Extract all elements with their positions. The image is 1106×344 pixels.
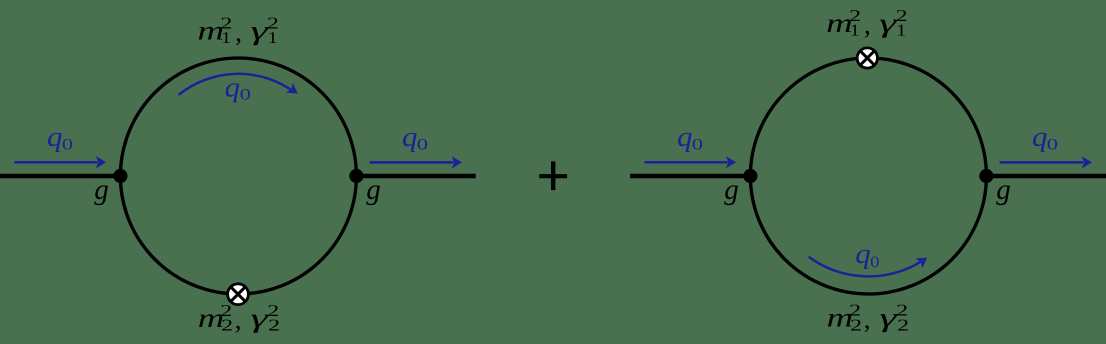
wire: left external leg	[630, 174, 751, 178]
svg-text:0: 0	[692, 136, 703, 153]
svg-text:1: 1	[850, 21, 860, 40]
svg-text:g: g	[996, 174, 1011, 206]
momentum arrow on left leg	[14, 156, 106, 168]
svg-text:0: 0	[417, 136, 428, 153]
svg-text:1: 1	[221, 28, 231, 47]
momentum arrow on right leg	[370, 156, 462, 168]
momentum arrow on left leg	[644, 156, 736, 168]
wire: right external leg	[986, 174, 1106, 178]
svg-text:,: ,	[235, 17, 242, 47]
label q0 above bottom arc	[855, 239, 879, 271]
wire: right external leg	[356, 174, 476, 178]
svg-text:,: ,	[235, 304, 242, 334]
propagator loop circle	[120, 58, 356, 294]
svg-text:2: 2	[897, 315, 909, 334]
svg-text:1: 1	[896, 21, 906, 40]
label q0 on left leg	[677, 122, 703, 153]
svg-text:g: g	[366, 174, 381, 206]
svg-text:g: g	[724, 174, 739, 206]
svg-text:g: g	[94, 174, 109, 206]
svg-text:2: 2	[268, 316, 280, 335]
vertex dot left (g)	[113, 169, 127, 183]
plus sign between diagrams	[539, 161, 567, 190]
label m2^2, gamma2^2 below loop	[827, 301, 909, 335]
label q0 under top arc	[225, 72, 251, 103]
svg-text:q: q	[1032, 122, 1048, 153]
svg-text:1: 1	[268, 28, 278, 47]
svg-text:q: q	[402, 122, 418, 153]
svg-text:0: 0	[62, 136, 73, 153]
svg-text:0: 0	[1047, 136, 1058, 153]
label q0 on left leg	[47, 122, 73, 153]
svg-text:q: q	[677, 122, 693, 153]
vertex dot right (g)	[979, 169, 993, 183]
svg-text:,: ,	[864, 304, 871, 334]
momentum arc arrow over loop top	[179, 74, 302, 99]
label m2^2, gamma2^2 below loop	[198, 301, 280, 335]
momentum arrow on right leg	[1000, 156, 1092, 168]
svg-text:q: q	[225, 72, 241, 103]
vertex dot right (g)	[349, 169, 363, 183]
svg-text:2: 2	[221, 316, 233, 335]
svg-text:0: 0	[870, 254, 879, 271]
crossed vertex at loop top	[857, 48, 877, 68]
momentum arc arrow under loop bottom	[809, 252, 931, 276]
label m1^2, gamma1^2 above crossed vertex	[826, 6, 907, 40]
wire: left external leg	[0, 174, 121, 178]
label m1^2, gamma1^2 above loop	[198, 13, 279, 47]
vertex dot left (g)	[743, 169, 757, 183]
svg-text:2: 2	[850, 315, 862, 334]
svg-text:q: q	[855, 239, 871, 270]
propagator loop circle	[750, 58, 986, 294]
label q0 on right leg	[402, 122, 428, 153]
crossed vertex at loop bottom	[228, 284, 249, 305]
label q0 on right leg	[1032, 122, 1058, 153]
svg-text:,: ,	[864, 10, 871, 40]
svg-text:q: q	[47, 122, 63, 153]
svg-text:0: 0	[240, 87, 251, 104]
